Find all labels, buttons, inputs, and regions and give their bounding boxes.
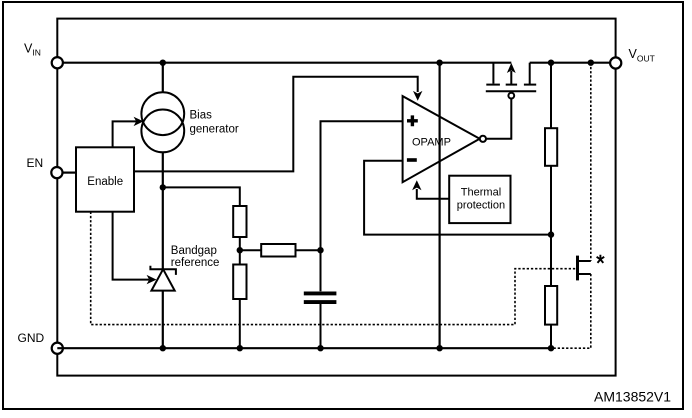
node junction dot bias output (160, 184, 166, 190)
wire opamp supply VIN to GND through opamp (439, 63, 441, 349)
wire Enable to bandgap (arrow) (113, 212, 149, 280)
resistor filter (R5) (261, 244, 295, 257)
capacitor filter (304, 291, 337, 295)
wire R5 to cap node (296, 249, 321, 251)
label asterisk (597, 255, 605, 263)
node junction dot GND/R2 (548, 345, 554, 351)
terminal VIN (52, 57, 63, 68)
wire feedback node to R2 (550, 235, 552, 286)
node junction dot VIN/opamp supply (436, 60, 442, 66)
wire capacitor to GND (320, 304, 322, 348)
op-amp minus input mark (407, 158, 417, 162)
terminal VOUT (610, 57, 621, 68)
transistor PMOS pass element (486, 63, 536, 92)
current source bias generator (141, 92, 184, 152)
IC boundary (57, 19, 615, 376)
wire VIN rail left segment (57, 62, 511, 64)
resistor feedback upper (R1) (545, 128, 557, 166)
terminal GND (52, 343, 63, 354)
pass transistor gate bubble (508, 93, 514, 99)
wire VIN rail right segment to VOUT (530, 62, 612, 64)
wire dashed Enable to pulldown transistor gate (91, 212, 576, 325)
svg-text:GND: GND (18, 331, 45, 345)
svg-text:protection: protection (457, 200, 505, 212)
op-amp output bubble (480, 136, 486, 142)
resistor reference lower (R4) (233, 265, 246, 300)
node junction dot VIN/bias (160, 60, 166, 66)
wire bias generator bottom lead (162, 152, 164, 269)
wire bias node to R3 (163, 187, 240, 206)
block Enable (76, 147, 134, 211)
node junction dot cap/plus input (317, 247, 323, 253)
resistor feedback lower (R2) (545, 286, 557, 325)
wire R4 to GND (239, 299, 241, 348)
wire feedback to opamp minus input (364, 161, 551, 235)
wire opamp + input down to cap node (321, 121, 403, 291)
wire dashed VOUT to pulldown drain (590, 63, 592, 261)
wire R1 to feedback node (550, 166, 552, 235)
resistor reference upper (R3) (233, 206, 246, 237)
node junction dot feedback (548, 231, 554, 237)
svg-text:AM13852V1: AM13852V1 (594, 388, 671, 404)
op-amp U1 (403, 96, 480, 182)
node junction dot GND/cap (317, 345, 323, 351)
node junction dot VOUT/R1 (548, 60, 554, 66)
pass transistor substrate arrow (507, 63, 516, 73)
wire opamp output to pass gate (486, 98, 511, 138)
transistor pulldown NMOS channel bar (576, 256, 579, 281)
svg-text:EN: EN (27, 156, 44, 170)
op-amp plus input mark (407, 115, 418, 126)
pulldown source lead (579, 273, 591, 275)
wire Enable to bias generator (arrow) (113, 121, 137, 147)
svg-text:Bandgap: Bandgap (171, 245, 217, 257)
zener diode bandgap reference (150, 266, 176, 275)
wire VOUT to R1 (550, 63, 552, 129)
node junction dot reference divider (237, 247, 243, 253)
wire GND rail (57, 347, 551, 349)
node junction dot VOUT/pulldown (588, 60, 594, 66)
block Thermal protection (449, 176, 510, 223)
wire R2 to GND (550, 325, 552, 349)
wire Enable to opamp enable (arrow into triangle top) (134, 77, 418, 172)
svg-text:generator: generator (190, 123, 239, 135)
node junction dot GND/R4 (237, 345, 243, 351)
svg-text:OPAMP: OPAMP (412, 137, 451, 149)
wire EN to Enable block (63, 172, 76, 174)
wire dashed pulldown source to GND (551, 274, 591, 348)
wire R3 to R4 (239, 237, 241, 265)
wire bias generator top lead (162, 63, 164, 93)
pulldown drain lead (579, 260, 591, 262)
terminal EN (51, 167, 62, 178)
wire thermal protection to opamp (arrow into triangle bottom) (417, 189, 449, 199)
svg-text:Enable: Enable (87, 176, 123, 188)
wire divider tap to R5 (240, 249, 261, 251)
node junction dot GND/opamp (436, 345, 442, 351)
svg-text:reference: reference (171, 257, 220, 269)
svg-text:Bias: Bias (190, 109, 213, 121)
svg-text:Thermal: Thermal (461, 187, 501, 199)
node junction dot GND/bandgap (160, 345, 166, 351)
wire bandgap anode to GND (162, 291, 164, 349)
